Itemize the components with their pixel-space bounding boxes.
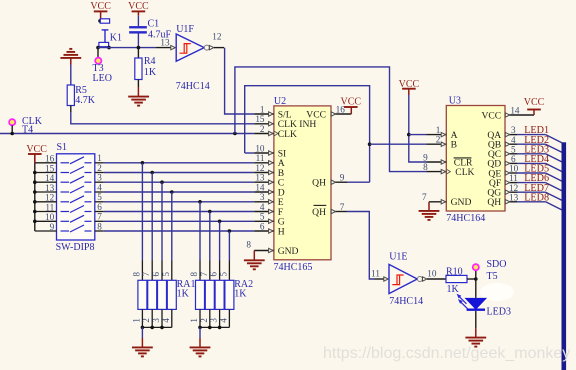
power VCC symbol (S1) [26, 144, 47, 163]
node T3 (test point) [93, 48, 112, 84]
svg-text:3: 3 [151, 318, 161, 323]
ground (below RA2) [190, 338, 211, 356]
svg-text:13: 13 [45, 183, 55, 193]
svg-text:6: 6 [511, 154, 516, 164]
svg-text:8: 8 [189, 272, 199, 277]
svg-text:2: 2 [260, 124, 265, 134]
svg-text:1: 1 [436, 125, 441, 135]
svg-text:11: 11 [256, 153, 265, 163]
svg-text:1K: 1K [144, 67, 157, 78]
power VCC symbol (above C1) [128, 1, 149, 16]
resistor R10 1K [446, 266, 476, 295]
resistor array RA2 1K [189, 261, 253, 339]
svg-text:VCC: VCC [26, 144, 47, 155]
resistor R4 1K [135, 48, 157, 87]
white smudge artifact [480, 283, 514, 301]
LED3 diode [457, 279, 511, 328]
svg-text:S1: S1 [57, 142, 68, 153]
svg-text:7: 7 [199, 272, 209, 277]
svg-text:C1: C1 [148, 18, 160, 29]
svg-text:3: 3 [511, 125, 516, 135]
svg-text:74HC164: 74HC164 [446, 213, 485, 224]
bus LED1-LED8 (thick vertical) [562, 142, 567, 370]
svg-text:SW-DIP8: SW-DIP8 [56, 242, 95, 253]
svg-text:CLK: CLK [278, 129, 297, 140]
shift register U3 74HC164 [422, 96, 534, 224]
svg-text:U1E: U1E [389, 252, 407, 263]
svg-text:74HC14: 74HC14 [176, 81, 210, 92]
wire net VCC-K1-C1-R4-U1F input [98, 46, 156, 50]
svg-text:LEO: LEO [93, 73, 112, 84]
svg-text:3: 3 [209, 318, 219, 323]
svg-text:10: 10 [427, 268, 437, 278]
svg-text:1: 1 [97, 153, 102, 163]
svg-text:GND: GND [451, 197, 472, 208]
svg-text:VCC: VCC [399, 79, 420, 90]
svg-text:9: 9 [340, 173, 345, 183]
svg-text:2: 2 [199, 318, 209, 323]
svg-text:15: 15 [45, 163, 55, 173]
svg-text:VCC: VCC [90, 1, 111, 12]
svg-text:CLR: CLR [454, 157, 473, 168]
ground (below LED3) [465, 328, 486, 347]
svg-text:13: 13 [160, 38, 170, 48]
svg-text:10: 10 [45, 212, 55, 222]
power VCC symbol (above K1) [90, 1, 111, 21]
svg-text:1: 1 [189, 318, 199, 323]
svg-text:8: 8 [131, 272, 141, 277]
svg-text:5: 5 [97, 192, 102, 202]
wire U2 QH-bar to U1E input [347, 212, 375, 280]
svg-text:14: 14 [510, 105, 520, 115]
svg-text:H: H [278, 226, 285, 237]
svg-text:3: 3 [260, 192, 265, 202]
ground (inverted, above R5) [60, 49, 81, 65]
svg-text:QH: QH [312, 207, 326, 218]
svg-text:1K: 1K [177, 289, 190, 300]
svg-text:15: 15 [255, 114, 265, 124]
capacitor C1 4.7uF [129, 16, 171, 48]
svg-text:4.7K: 4.7K [75, 95, 96, 106]
power VCC symbol (U3 pin 14) [524, 97, 545, 115]
svg-text:R10: R10 [446, 266, 463, 277]
wires U3 outputs QA-QH to LED bus, nets LED1-LED8 [505, 125, 562, 210]
wire net QH feedback (U2 QH to U2 SI and U3 B) [245, 86, 427, 183]
svg-text:3: 3 [97, 173, 102, 183]
pushbutton K1 [96, 19, 122, 50]
resistor R5 4.7K [67, 65, 96, 113]
wire net VCC to U3 pins 1,9 [407, 95, 427, 162]
svg-text:7: 7 [97, 212, 102, 222]
ground (U3 pin 7) [419, 202, 440, 220]
wires S1 outputs to U2 inputs A-H with pulldown drops [104, 161, 254, 261]
svg-text:7: 7 [340, 202, 345, 212]
svg-text:VCC: VCC [306, 109, 326, 120]
wire S1 common VCC bus [33, 163, 37, 231]
svg-text:K1: K1 [110, 32, 122, 43]
node T4 (CLK test point) [9, 116, 43, 136]
svg-text:74HC14: 74HC14 [389, 296, 423, 307]
resistor array RA1 1K [131, 261, 195, 339]
svg-text:5: 5 [511, 144, 516, 154]
svg-text:74HC165: 74HC165 [274, 262, 313, 273]
svg-text:10: 10 [255, 143, 265, 153]
svg-text:CLK: CLK [455, 167, 474, 178]
ground (below R4) [128, 87, 149, 106]
svg-text:13: 13 [509, 192, 519, 202]
ground (U2 pin 8) [244, 251, 265, 270]
svg-text:VCC: VCC [128, 1, 149, 12]
svg-text:12: 12 [255, 163, 265, 173]
svg-text:4: 4 [218, 318, 228, 323]
svg-text:1K: 1K [447, 284, 460, 295]
svg-text:2: 2 [97, 163, 102, 173]
svg-text:2: 2 [141, 318, 151, 323]
svg-text:5: 5 [218, 272, 228, 277]
power VCC symbol (U2 pin 16) [341, 97, 362, 114]
svg-text:7: 7 [141, 272, 151, 277]
svg-text:5: 5 [161, 272, 171, 277]
ground (below RA1) [132, 338, 153, 356]
svg-text:4: 4 [260, 202, 265, 212]
svg-text:VCC: VCC [341, 97, 362, 108]
svg-text:11: 11 [45, 202, 54, 212]
svg-text:10: 10 [509, 164, 519, 174]
inverter U1E 74HC14 [371, 252, 446, 308]
svg-text:8: 8 [423, 162, 428, 172]
svg-text:T5: T5 [487, 271, 498, 282]
svg-text:12: 12 [45, 193, 55, 203]
svg-text:GND: GND [278, 246, 299, 257]
DIP switch S1 SW-DIP8 [35, 142, 104, 253]
svg-text:5: 5 [260, 212, 265, 222]
svg-text:U2: U2 [274, 96, 286, 107]
svg-text:12: 12 [509, 183, 519, 193]
svg-text:4: 4 [511, 135, 516, 145]
svg-text:8: 8 [246, 239, 251, 249]
svg-text:1: 1 [260, 104, 265, 114]
node T5 (SDO test point) [473, 259, 507, 282]
svg-text:VCC: VCC [524, 97, 545, 108]
svg-text:6: 6 [97, 202, 102, 212]
power VCC symbol (U3 A/CLR) [399, 79, 420, 95]
svg-text:9: 9 [50, 222, 55, 232]
wire net CLK (T4 to U2 pin 2 and U3 pin 8) [0, 67, 427, 172]
svg-text:13: 13 [255, 173, 265, 183]
svg-text:VCC: VCC [481, 110, 501, 121]
shift register U2 74HC165 [246, 96, 351, 273]
svg-text:https://blog.csdn.net/geek_mon: https://blog.csdn.net/geek_monkey [323, 345, 570, 362]
svg-text:1: 1 [131, 318, 141, 323]
svg-text:R4: R4 [144, 56, 156, 67]
svg-text:SDO: SDO [487, 259, 507, 270]
svg-text:12: 12 [212, 31, 222, 41]
svg-text:6: 6 [260, 221, 265, 231]
svg-text:U1F: U1F [176, 24, 194, 35]
inverter U1F 74HC14 [156, 24, 224, 92]
svg-text:6: 6 [151, 272, 161, 277]
watermark [323, 345, 570, 362]
svg-text:1K: 1K [234, 289, 247, 300]
svg-text:11: 11 [509, 173, 518, 183]
svg-text:B: B [451, 140, 457, 151]
svg-text:9: 9 [423, 152, 428, 162]
wire net CLK-INH (R5 to U2 pin 15) [71, 112, 254, 124]
svg-text:LED3: LED3 [487, 307, 511, 318]
svg-text:7: 7 [422, 192, 427, 202]
svg-text:U3: U3 [449, 96, 461, 107]
svg-text:QH: QH [312, 178, 326, 189]
wire U1F output to U2 pin 1 S/L [225, 48, 255, 114]
svg-text:14: 14 [45, 173, 55, 183]
svg-text:4: 4 [97, 182, 102, 192]
svg-text:11: 11 [371, 268, 380, 278]
svg-text:6: 6 [209, 272, 219, 277]
svg-text:8: 8 [97, 221, 102, 231]
svg-text:QH: QH [487, 197, 501, 208]
svg-text:4: 4 [161, 318, 171, 323]
svg-text:14: 14 [255, 182, 265, 192]
svg-text:2: 2 [436, 135, 441, 145]
